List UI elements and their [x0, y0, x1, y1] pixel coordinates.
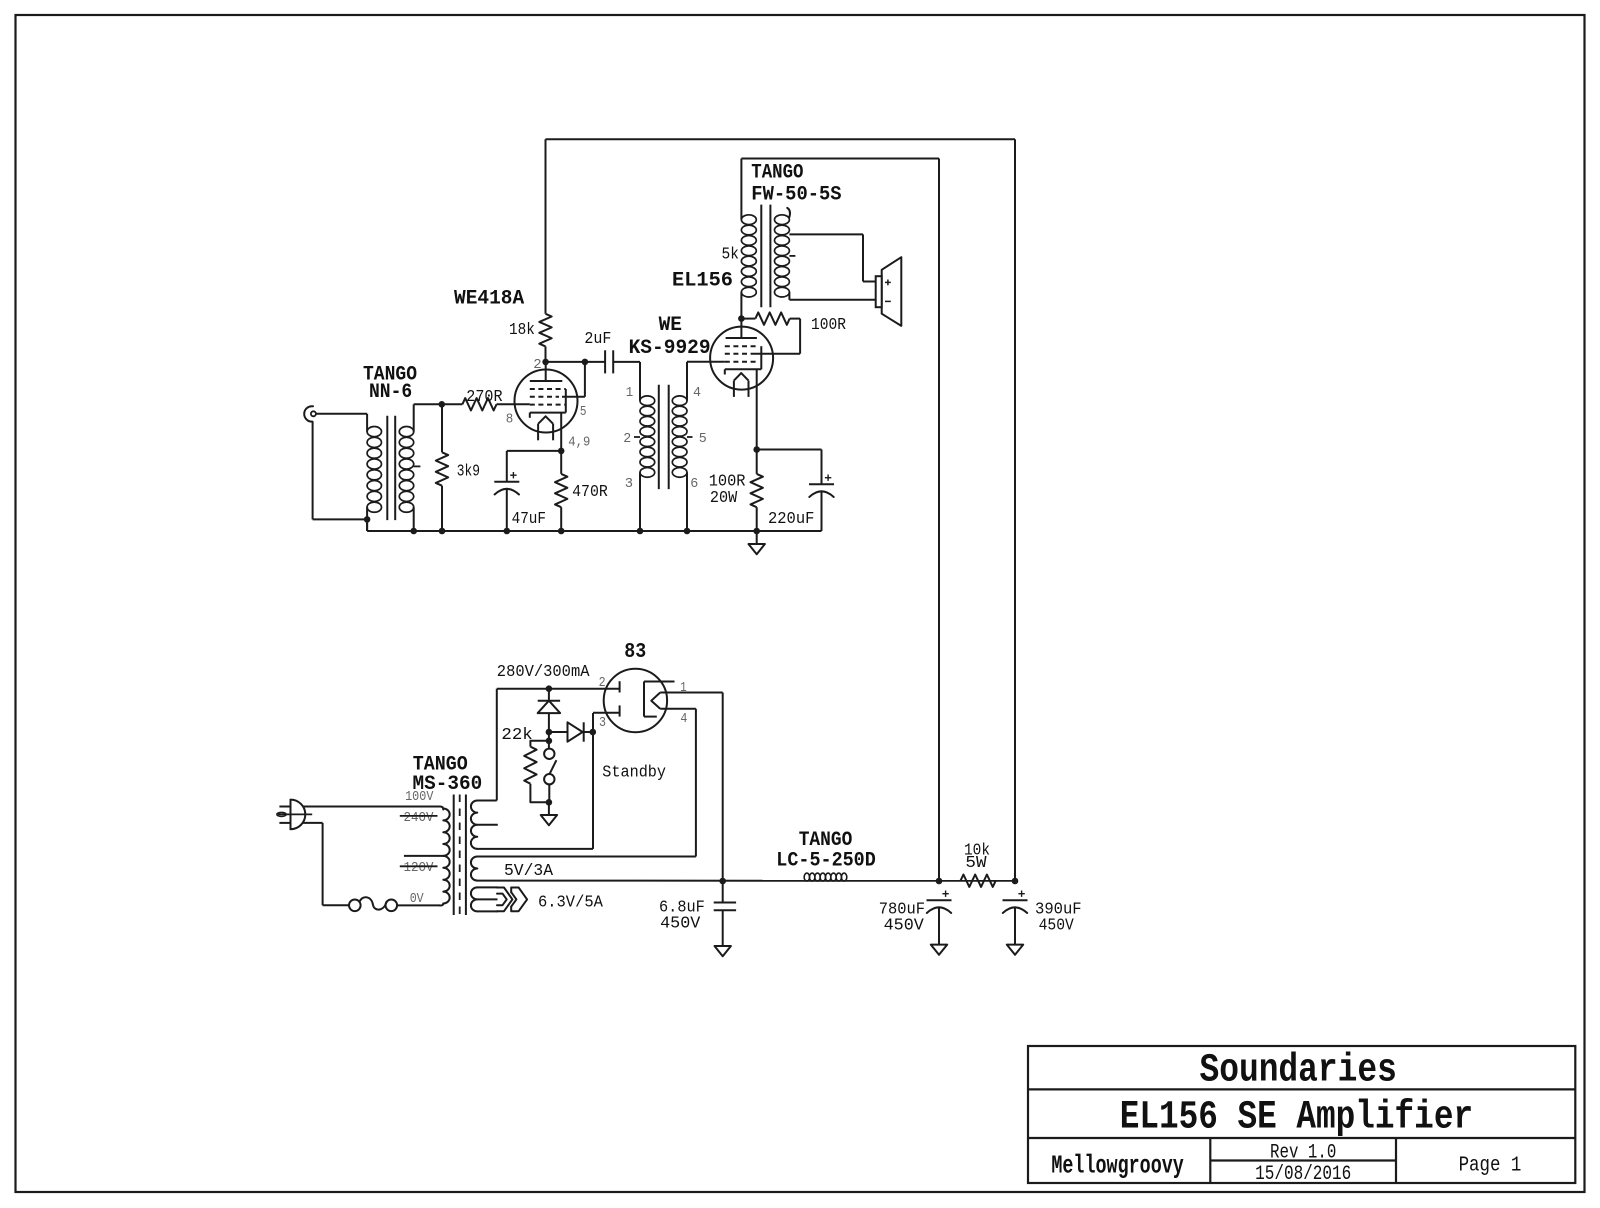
transformer T2 secondary tap tick [687, 436, 693, 438]
label 100R (R6) [709, 472, 746, 491]
svg-text:22k: 22k [501, 726, 532, 745]
speaker - mark [885, 300, 891, 302]
node 470R-rail [558, 528, 565, 535]
pin label 6 (T2) [690, 476, 698, 492]
wire HV top to 280V node [477, 689, 619, 801]
tube V3 cathode sleeve [644, 682, 675, 717]
label 240V (crossed) [400, 810, 438, 826]
node T2 pin3-rail [637, 528, 644, 535]
resistor R1 3k9 [436, 404, 448, 531]
label 6.3V/5A [538, 893, 604, 912]
title text EL156 SE Amplifier [1120, 1095, 1473, 1140]
wire B+ rail2 [741, 158, 939, 160]
svg-text:FW-50-5S: FW-50-5S [751, 183, 841, 206]
tube V3 plate bar (pin 2) [619, 681, 621, 692]
node rail-ground junction [753, 528, 760, 535]
resistor R3 18k [539, 139, 551, 362]
wire 6.3V mid lead [477, 898, 497, 900]
wire B+ rail (PSU) [477, 880, 1015, 882]
svg-text:Standby: Standby [602, 763, 666, 782]
resistor R8 10k 5W [961, 875, 996, 887]
pin label 3 (T2) [625, 476, 633, 492]
node g2 strap junction [582, 359, 589, 366]
resistor R4 470R [555, 451, 567, 531]
wire 6.3V top lead [477, 886, 498, 888]
pin label 3 (V3) [599, 715, 606, 731]
label WE418A [454, 287, 524, 310]
wire cathode to 220uF [757, 450, 822, 485]
svg-text:2: 2 [623, 431, 631, 447]
label 5W [965, 854, 987, 873]
label 450V (C5) [884, 917, 925, 936]
input jack J1 [304, 406, 316, 421]
wire NN-6 secondary top to 270R [414, 403, 463, 405]
transformer T3 secondary [775, 208, 791, 300]
label 22k [501, 726, 532, 745]
title text Page 1 [1459, 1154, 1522, 1177]
wire jack tip to NN-6 primary [316, 413, 367, 415]
svg-text:100R: 100R [811, 316, 846, 335]
pin label 2 (V3) [599, 675, 606, 691]
transformer T4 HV secondary [471, 801, 477, 849]
tube V3 filament chevron [651, 693, 660, 709]
transformer T3 FW-50-5S primary [741, 159, 756, 319]
svg-text:5: 5 [580, 404, 587, 420]
pin label 2 (V1 plate) [533, 357, 541, 373]
svg-text:4: 4 [680, 711, 687, 727]
svg-text:EL156 SE Amplifier: EL156 SE Amplifier [1120, 1095, 1473, 1140]
wire pin3 to 83 [593, 713, 620, 732]
label 6.8uF [659, 899, 705, 918]
svg-text:LC-5-250D: LC-5-250D [776, 849, 876, 872]
tube V1 heater [538, 416, 553, 440]
svg-text:8: 8 [506, 411, 514, 427]
node D2 output junction [590, 729, 597, 736]
inductor L1 TANGO LC-5-250D [804, 873, 847, 881]
resistor R2 270R [462, 398, 529, 410]
label NN-6 [369, 381, 412, 404]
tube V2 grid g1 row [725, 361, 758, 363]
label 83 [624, 641, 646, 664]
transformer T4 HV mid tap stub [477, 824, 498, 826]
pin label 5 (T2) [699, 431, 707, 447]
label 47uF [512, 510, 546, 529]
speaker + mark [885, 280, 891, 286]
svg-text:240V: 240V [404, 810, 435, 826]
node 3k9-rail [439, 528, 446, 535]
svg-text:WE418A: WE418A [454, 287, 524, 310]
transformer T4 MS-360 primary lower [440, 856, 450, 906]
wire 6.3V bottom lead [477, 910, 498, 912]
label 5V/3A [504, 862, 554, 881]
label 100R (R5) [811, 316, 846, 335]
pin label 8 (V1 grid) [506, 411, 514, 427]
wire standby node vertical [592, 713, 594, 732]
wire plate node [546, 361, 606, 363]
title text Soundaries [1199, 1048, 1397, 1093]
label Standby [602, 763, 666, 782]
title text Mellowgroovy [1051, 1151, 1184, 1181]
svg-text:4,9: 4,9 [568, 434, 590, 450]
pin label 1 (V3) [680, 680, 687, 696]
label 120V (crossed) [400, 860, 438, 876]
wire HV bottom to standby node [477, 732, 593, 849]
svg-text:280V/300mA: 280V/300mA [497, 663, 590, 682]
svg-text:3: 3 [625, 476, 633, 492]
label 100V [405, 789, 434, 805]
label 2uF [584, 330, 611, 349]
resistor R7 22k [524, 741, 549, 803]
svg-text:220uF: 220uF [768, 510, 814, 529]
transformer T4 5V winding [471, 857, 477, 881]
pin label 4 (V3) [680, 711, 687, 727]
mains plug P1 [277, 799, 312, 830]
svg-text:5V/3A: 5V/3A [504, 862, 554, 881]
label 20W [710, 489, 738, 508]
transformer T4 core [454, 795, 466, 916]
svg-text:15/08/2016: 15/08/2016 [1255, 1163, 1351, 1186]
svg-text:1: 1 [626, 385, 633, 401]
ground (amplifier rail) [749, 531, 765, 554]
label 220uF [768, 510, 814, 529]
svg-text:WE: WE [659, 314, 682, 337]
node 780uF junction [936, 878, 943, 885]
tube V3 83 envelope [604, 669, 667, 732]
svg-text:TANGO: TANGO [751, 162, 803, 185]
title text Rev 1.0 [1270, 1142, 1336, 1165]
svg-text:6: 6 [690, 476, 698, 492]
label 450V (C4) [660, 915, 701, 934]
transformer T1 secondary [399, 404, 413, 531]
svg-text:4: 4 [693, 385, 701, 401]
capacitor C2 47uF [494, 472, 519, 531]
tube V1 plate [530, 362, 563, 381]
ground (780uF) [931, 945, 947, 955]
pin label 5 (V1 g2) [580, 404, 587, 420]
node 3k9 top junction [439, 401, 446, 408]
tube V1 grid g2 row [530, 396, 559, 398]
svg-text:0V: 0V [410, 891, 424, 907]
wire jack sleeve down [313, 422, 368, 520]
svg-text:5: 5 [699, 431, 707, 447]
svg-text:450V: 450V [660, 915, 701, 934]
node 6.8uF junction [719, 878, 726, 885]
capacitor C1 2uF [605, 350, 613, 373]
wire fuse to 0V tap [397, 904, 440, 906]
node V2 plate node [738, 315, 745, 322]
wire node split [548, 732, 550, 749]
wire T2 secondary to V2 grid [687, 362, 725, 401]
transformer T2 KS-9929 primary [640, 396, 655, 531]
label 390uF [1035, 901, 1082, 920]
label 0V [410, 891, 424, 907]
label 270R [466, 388, 502, 407]
svg-text:470R: 470R [572, 483, 608, 502]
label FW-50-5S [751, 183, 841, 206]
title text 15/08/2016 [1255, 1163, 1351, 1186]
switch SW1 standby [544, 749, 556, 803]
node 280V junction [546, 685, 553, 692]
svg-text:450V: 450V [884, 917, 925, 936]
svg-text:2uF: 2uF [584, 330, 611, 349]
node T1 secondary-rail [410, 528, 417, 535]
svg-text:120V: 120V [404, 860, 435, 876]
svg-text:1: 1 [680, 680, 687, 696]
node V2 cathode junction [753, 446, 760, 453]
tube V2 plate [726, 319, 757, 338]
transformer T1 TANGO NN-6 primary [367, 414, 381, 531]
speaker LS1 [876, 257, 902, 326]
diode D2 [549, 722, 593, 741]
label 3k9 [457, 463, 480, 482]
transformer T4 MS-360 primary upper [443, 809, 449, 856]
ground (standby network) [541, 802, 557, 825]
tube V2 g2 lead [753, 319, 800, 354]
capacitor C4 6.8uF [714, 881, 736, 946]
node 22k/switch top junction [546, 738, 553, 745]
label TANGO (MS-360) [413, 754, 468, 777]
transformer T3 core [761, 205, 770, 308]
svg-text:6.3V/5A: 6.3V/5A [538, 893, 604, 912]
tube V2 heater [734, 373, 749, 397]
svg-text:NN-6: NN-6 [369, 381, 412, 404]
svg-text:MS-360: MS-360 [413, 773, 483, 796]
transformer T2 primary tap tick [634, 436, 640, 438]
fuse F1 [349, 897, 397, 911]
svg-text:20W: 20W [710, 489, 738, 508]
pin label 2 (T2) [623, 431, 631, 447]
label TANGO (FW-50-5S) [751, 162, 803, 185]
label 470R [572, 483, 608, 502]
label 450V (C6) [1039, 917, 1075, 936]
svg-text:5k: 5k [722, 245, 739, 264]
tube V2 grid g3 row [725, 345, 758, 347]
tube V1 g3-cathode strap [565, 389, 567, 413]
svg-text:Page 1: Page 1 [1459, 1154, 1522, 1177]
svg-text:Mellowgroovy: Mellowgroovy [1051, 1151, 1184, 1181]
wire T3 secondary to speaker + [789, 234, 876, 281]
wire cathode to 47uF [507, 451, 561, 482]
transformer T4 primary mid tap [404, 855, 443, 857]
svg-text:47uF: 47uF [512, 510, 546, 529]
wire ground rail (amplifier) [367, 519, 821, 531]
resistor R5 100R (g2 stopper) [741, 312, 800, 324]
wire pin4 to 5V winding [660, 708, 696, 710]
tube V2 g3-cathode strap [760, 346, 762, 369]
diode D1 [538, 689, 560, 732]
node jack sleeve / primary junction [364, 516, 371, 523]
capacitor C5 780uF [927, 891, 952, 945]
node 47uF-rail [504, 528, 511, 535]
svg-text:18k: 18k [509, 321, 535, 340]
tube V1 grid g3 row [530, 388, 566, 390]
node D1-D2 junction [546, 729, 553, 736]
node T2 pin6-rail [684, 528, 691, 535]
pin label 1 (T2) [626, 385, 633, 401]
wire plug neutral down [303, 823, 349, 905]
svg-text:270R: 270R [466, 388, 502, 407]
svg-text:EL156: EL156 [672, 270, 733, 293]
svg-text:2: 2 [533, 357, 541, 373]
label TANGO (LC-5-250D) [799, 829, 853, 852]
svg-text:450V: 450V [1039, 917, 1075, 936]
transformer T3 secondary tap tick [789, 255, 795, 257]
label 280V/300mA [497, 663, 590, 682]
label WE [659, 314, 682, 337]
tube V1 g2 lead [562, 362, 585, 397]
label 780uF [879, 901, 925, 920]
wire 5V top to pin4 [477, 709, 696, 857]
svg-text:KS-9929: KS-9929 [629, 337, 711, 360]
transformer T4 6.3V winding [471, 887, 477, 911]
wire B+ rail1 [546, 138, 1016, 140]
tube V1 cathode lead [560, 413, 562, 451]
connector arrow 6.3V [497, 888, 527, 912]
wire pin1 to B+ rail [660, 693, 723, 882]
capacitor C3 220uF [809, 475, 834, 532]
resistor R6 100R 20W [751, 450, 763, 532]
svg-text:3k9: 3k9 [457, 463, 480, 482]
wire B+ right vertical (390uF feed) [1014, 139, 1016, 881]
svg-text:83: 83 [624, 641, 646, 664]
label MS-360 [413, 773, 483, 796]
svg-text:3: 3 [599, 715, 606, 731]
node V1 plate node [542, 359, 549, 366]
tube V2 EL156 envelope [710, 327, 773, 390]
ground (6.8uF) [715, 946, 731, 956]
label EL156 [672, 270, 733, 293]
node V1 cathode junction [558, 448, 565, 455]
tube V1 cathode [530, 413, 566, 418]
wire plug live to 100V tap [303, 807, 443, 810]
transformer T1 core [387, 416, 395, 520]
wire T3 secondary to speaker - [789, 299, 876, 301]
label 5k [722, 245, 739, 264]
label 18k [509, 321, 535, 340]
tube V1 grid g1 row [530, 404, 566, 406]
label TANGO (NN-6) [363, 364, 417, 387]
transformer T1 secondary tap tick [414, 465, 421, 467]
svg-text:Soundaries: Soundaries [1199, 1048, 1397, 1093]
label 10k [964, 842, 990, 861]
label KS-9929 [629, 337, 711, 360]
node 22k/switch bottom junction [546, 799, 553, 806]
pin label 4,9 (V1 cathode) [568, 434, 590, 450]
svg-text:Rev 1.0: Rev 1.0 [1270, 1142, 1336, 1165]
label LC-5-250D [776, 849, 876, 872]
transformer T2 core [659, 385, 669, 489]
tube V2 cathode [725, 369, 762, 374]
transformer T2 secondary [672, 396, 687, 531]
svg-text:5W: 5W [965, 854, 987, 873]
tube V2 cathode lead [756, 369, 758, 449]
ground (390uF) [1007, 945, 1023, 955]
wire B+ right vertical (780uF feed) [938, 159, 940, 882]
pin label 4 (T2) [693, 385, 701, 401]
capacitor C6 390uF [1003, 891, 1028, 945]
node 390uF junction [1012, 878, 1019, 885]
wire 2uF to T2 primary [613, 362, 640, 401]
tube V1 WE418A envelope [515, 370, 578, 433]
title block [1028, 1046, 1575, 1183]
tube V2 grid g2 row [725, 353, 753, 355]
svg-text:2: 2 [599, 675, 606, 691]
tube V3 plate bar (pin 3) [619, 705, 621, 716]
